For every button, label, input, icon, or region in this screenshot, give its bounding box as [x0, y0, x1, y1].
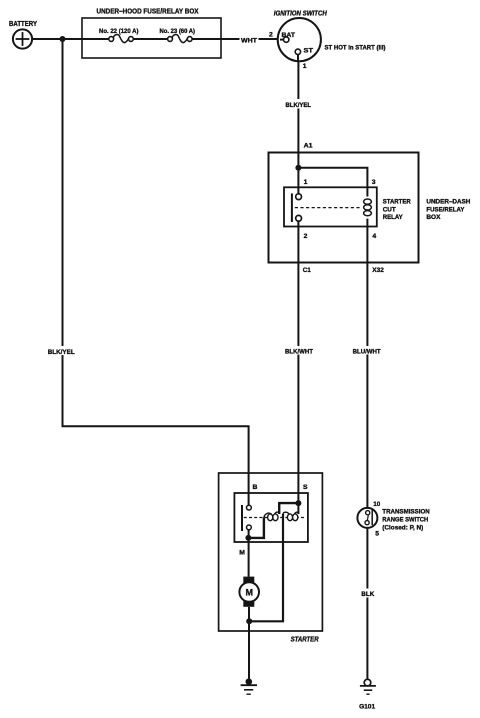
svg-text:4: 4: [372, 233, 376, 240]
svg-text:3: 3: [372, 179, 376, 186]
svg-text:TRANSMISSION: TRANSMISSION: [382, 508, 430, 515]
svg-text:BLK/YEL: BLK/YEL: [286, 102, 312, 109]
svg-text:RANGE SWITCH: RANGE SWITCH: [382, 516, 428, 523]
svg-text:2: 2: [304, 233, 308, 240]
svg-text:B: B: [253, 484, 258, 491]
svg-text:ST HOT in START (III): ST HOT in START (III): [325, 45, 386, 52]
svg-text:BLU/WHT: BLU/WHT: [353, 348, 381, 355]
svg-text:BLK/YEL: BLK/YEL: [48, 349, 75, 356]
svg-text:(Closed: P, N): (Closed: P, N): [382, 524, 423, 531]
svg-text:No. 23 (60 A): No. 23 (60 A): [160, 28, 196, 35]
svg-text:ST: ST: [304, 48, 314, 55]
svg-text:RELAY: RELAY: [383, 214, 403, 221]
svg-text:UNDER–DASH: UNDER–DASH: [426, 199, 470, 206]
svg-text:5: 5: [375, 531, 379, 538]
svg-text:2: 2: [269, 32, 273, 39]
svg-text:FUSE/RELAY: FUSE/RELAY: [426, 206, 464, 213]
svg-text:STARTER: STARTER: [383, 199, 411, 206]
svg-text:BLK/WHT: BLK/WHT: [285, 348, 313, 355]
svg-text:M: M: [239, 549, 245, 556]
svg-text:STARTER: STARTER: [291, 637, 319, 644]
svg-text:BLK: BLK: [361, 591, 374, 598]
svg-text:1: 1: [304, 179, 308, 186]
svg-text:BOX: BOX: [426, 214, 440, 221]
svg-text:UNDER–HOOD FUSE/RELAY BOX: UNDER–HOOD FUSE/RELAY BOX: [97, 9, 199, 16]
svg-text:10: 10: [373, 501, 380, 508]
svg-text:BAT: BAT: [282, 32, 296, 39]
svg-text:1: 1: [303, 63, 307, 70]
svg-text:M: M: [245, 587, 253, 597]
svg-text:X32: X32: [372, 267, 384, 274]
svg-text:No. 22 (120 A): No. 22 (120 A): [99, 28, 139, 35]
svg-text:S: S: [303, 484, 308, 491]
svg-text:CUT: CUT: [383, 206, 397, 213]
svg-text:WHT: WHT: [241, 37, 257, 44]
svg-text:BATTERY: BATTERY: [9, 21, 37, 28]
svg-text:G101: G101: [359, 704, 375, 711]
svg-text:A1: A1: [304, 143, 313, 150]
svg-text:C1: C1: [303, 267, 311, 274]
svg-text:IGNITION SWITCH: IGNITION SWITCH: [274, 11, 328, 18]
